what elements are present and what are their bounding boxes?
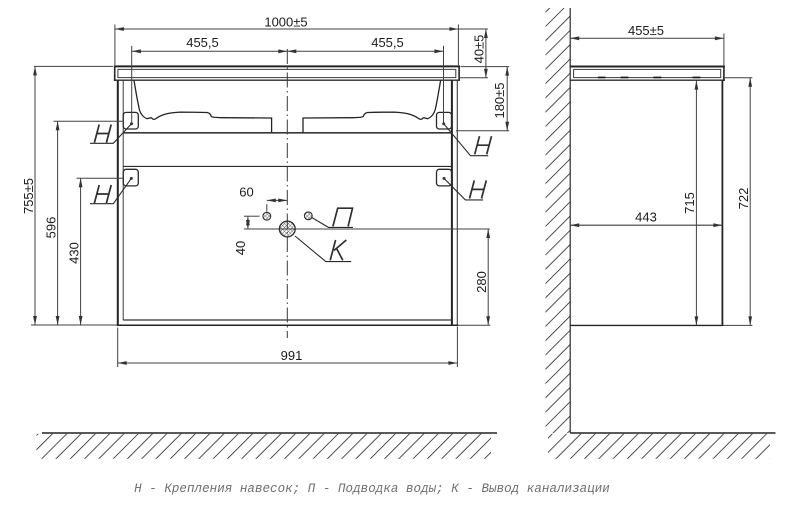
dimension 430 ext bbox=[77, 177, 124, 179]
dimension 40±5 line bbox=[485, 29, 487, 78]
screw dot lower-right bbox=[443, 177, 446, 180]
countertop inner rect bbox=[118, 69, 456, 77]
dimension 755±5 line bbox=[34, 66, 36, 325]
dimension 455±5 line bbox=[570, 37, 724, 39]
ground line front view bbox=[42, 432, 497, 434]
dimension 455,5 right line bbox=[287, 50, 443, 52]
dimension 180±5 line bbox=[506, 67, 508, 131]
svg-text:60: 60 bbox=[239, 185, 253, 200]
basin left outline bbox=[134, 81, 272, 133]
label Н upper-right leader bbox=[444, 124, 489, 156]
water supply hole left bbox=[263, 212, 271, 220]
dimension 596 line bbox=[57, 121, 59, 325]
cabinet bottom line bbox=[117, 324, 459, 326]
dimension 40 long ext to 280 bbox=[244, 228, 490, 230]
centerline bbox=[286, 49, 288, 338]
bracket lower-left bbox=[123, 169, 138, 186]
dimension 40 line bbox=[247, 216, 249, 229]
svg-text:180±5: 180±5 bbox=[492, 82, 507, 118]
cabinet right wall outer thin bbox=[456, 80, 458, 326]
label П text bbox=[333, 208, 353, 226]
svg-text:Н - Крепления навесок; П - Под: Н - Крепления навесок; П - Подводка воды… bbox=[134, 482, 610, 496]
dimension 430 line bbox=[80, 178, 82, 325]
screw dot lower-left bbox=[130, 177, 133, 180]
dimension 1000±5 line bbox=[115, 28, 459, 30]
dimension 596 ext bbox=[54, 120, 124, 122]
dimension 455,5 left ext bbox=[131, 46, 133, 123]
side cabinet bottom bbox=[570, 324, 723, 326]
dimension 1000±5 ext right bbox=[457, 25, 459, 66]
dimension 455,5 right ext bbox=[443, 46, 445, 123]
water supply hole right П bbox=[304, 212, 312, 220]
svg-text:1000±5: 1000±5 bbox=[264, 14, 307, 29]
drain hole К bbox=[279, 221, 295, 237]
ground hatch front view bbox=[37, 434, 492, 459]
dimension 722 line bbox=[749, 78, 751, 326]
wall hatch bbox=[546, 8, 571, 433]
svg-text:40: 40 bbox=[233, 241, 248, 255]
bracket lower-right bbox=[437, 169, 452, 186]
side countertop right edge bbox=[723, 66, 725, 81]
dimension 991 line bbox=[118, 362, 458, 364]
dimension 755±5 top ext bbox=[34, 65, 113, 67]
wall line bbox=[569, 8, 571, 433]
svg-text:715: 715 bbox=[682, 192, 697, 214]
side countertop bottom edge bbox=[570, 79, 725, 81]
label Н upper-left leader bbox=[90, 124, 132, 144]
countertop right edge bbox=[458, 65, 460, 80]
label Н upper-left text bbox=[94, 125, 111, 143]
svg-text:455±5: 455±5 bbox=[628, 23, 664, 38]
dimension 755/596/430 bottom ext bbox=[31, 324, 117, 326]
dimension 722 top ext bbox=[724, 77, 753, 79]
dimension 455±5 right ext bbox=[723, 34, 725, 66]
cabinet left wall outer bbox=[117, 80, 119, 326]
label К text bbox=[330, 240, 346, 260]
svg-text:755±5: 755±5 bbox=[21, 178, 36, 214]
svg-text:596: 596 bbox=[44, 217, 59, 239]
bracket upper-right bbox=[437, 112, 452, 129]
label К leader bbox=[295, 236, 351, 262]
basin right outline bbox=[303, 81, 441, 133]
label Н lower-left text bbox=[94, 185, 111, 203]
svg-text:280: 280 bbox=[474, 271, 489, 293]
dimension 1000±5 ext left bbox=[114, 25, 116, 66]
countertop bottom edge bbox=[114, 79, 460, 81]
dimension 180±5 top ext bbox=[461, 66, 510, 68]
dimension 991 left ext bbox=[117, 328, 119, 368]
dimension 991 right ext bbox=[456, 327, 458, 368]
screw dot upper-right bbox=[442, 122, 445, 125]
dimension 443 line / drawer divider bbox=[570, 224, 722, 226]
label Н lower-left leader bbox=[90, 178, 131, 203]
countertop left edge bbox=[114, 65, 116, 80]
dimension 722 bottom ext bbox=[723, 324, 752, 326]
svg-text:443: 443 bbox=[635, 210, 657, 225]
side countertop inner rect bbox=[574, 69, 721, 77]
dimension 280 line bbox=[487, 229, 489, 325]
bracket upper-left bbox=[123, 112, 138, 129]
label Н upper-right text bbox=[475, 136, 492, 154]
dimension 40±5 bottom ext bbox=[460, 77, 488, 79]
ground line side view bbox=[570, 432, 775, 434]
countertop top edge bbox=[114, 65, 460, 67]
dimension 280 bottom ext bbox=[458, 324, 490, 326]
dimension 60 ext bbox=[266, 204, 268, 211]
svg-text:455,5: 455,5 bbox=[371, 35, 404, 50]
shelf line under basins bbox=[123, 132, 452, 134]
dimension 715 line bbox=[695, 81, 697, 326]
svg-text:722: 722 bbox=[736, 188, 751, 210]
label Н lower-right leader bbox=[444, 178, 483, 200]
screw dot upper-left bbox=[130, 122, 133, 125]
side countertop top edge bbox=[570, 66, 725, 68]
label П leader bbox=[312, 218, 353, 228]
dimension 60 line bbox=[267, 199, 288, 201]
side cabinet front edge bbox=[721, 80, 723, 326]
cabinet left wall inner bbox=[122, 80, 124, 320]
basin silhouette dashes bbox=[598, 76, 700, 78]
dimension 40±5 top ext bbox=[456, 28, 488, 30]
svg-text:455,5: 455,5 bbox=[186, 35, 219, 50]
svg-text:40±5: 40±5 bbox=[471, 35, 486, 64]
dimension 40 top ext bbox=[244, 215, 260, 217]
svg-text:991: 991 bbox=[281, 348, 303, 363]
svg-text:430: 430 bbox=[67, 242, 82, 264]
ground hatch side view bbox=[548, 434, 770, 459]
cabinet right wall thick bbox=[451, 80, 453, 326]
drawer top line bbox=[123, 165, 452, 167]
dimension 455,5 left line bbox=[132, 50, 287, 52]
label Н lower-right text bbox=[470, 180, 487, 198]
cabinet bottom inner line bbox=[123, 319, 452, 321]
dimension 180±5 bottom ext bbox=[456, 130, 509, 132]
